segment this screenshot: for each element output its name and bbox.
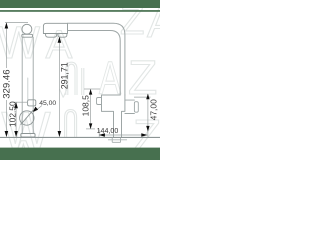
right view: spout arm bottom / inner curve <box>68 31 121 96</box>
right view: left nub <box>97 98 102 105</box>
left view: column left edge <box>21 37 23 133</box>
arrow down 329.46 bottom <box>5 131 9 137</box>
right view: handle end cap <box>134 102 138 113</box>
dim line 108.5 <box>90 89 92 128</box>
svg-text:108,5: 108,5 <box>81 95 91 117</box>
footer green band <box>0 148 160 160</box>
ext line 47.00 top <box>134 96 151 98</box>
left view: knob sphere <box>22 24 32 34</box>
arrow leader 45.00 <box>33 107 38 112</box>
dim line 329.46 lower <box>5 100 7 137</box>
watermark WALZ letters <box>0 0 175 183</box>
deck / counter line <box>0 136 160 138</box>
svg-text:47,00: 47,00 <box>148 99 158 121</box>
left view: knob collar <box>22 34 33 37</box>
dim line 47.00 <box>147 94 149 137</box>
arrow up 47.00 top <box>146 94 149 100</box>
left view: handle sphere <box>20 111 34 125</box>
arrow up 291.71 top <box>58 37 62 43</box>
header green band <box>0 0 160 8</box>
ext line 108.5 bottom <box>86 128 95 130</box>
arrow down 47.00 bottom <box>146 126 149 132</box>
left view: handle pivot collar <box>28 100 36 106</box>
svg-text:291,71: 291,71 <box>60 62 70 89</box>
dim line 291.71 <box>58 37 60 136</box>
left view: column right edge <box>32 37 34 133</box>
right view: side handle cylinder <box>125 100 134 113</box>
dim line 144.00 <box>99 134 147 136</box>
svg-text:102.50: 102.50 <box>7 101 17 127</box>
dim line 102.50 <box>15 103 17 137</box>
right view: spout arm top <box>68 23 125 95</box>
left view: base flange <box>21 134 35 137</box>
arrow down 108.5 bottom <box>89 123 92 129</box>
svg-text:144,00: 144,00 <box>97 127 119 135</box>
svg-text:329.46: 329.46 <box>2 69 13 98</box>
arrow left 144.00 <box>99 133 105 136</box>
under-deck shank <box>108 137 127 142</box>
arrow down 291.71 bottom <box>58 131 62 137</box>
svg-text:45,00: 45,00 <box>39 100 56 107</box>
leader 45.00 <box>34 106 42 112</box>
left view: handle sphere diagonal <box>21 110 33 124</box>
arrow down 102.50 bottom <box>14 131 18 137</box>
ext line top 329.46 <box>5 22 28 24</box>
right view: spout head <box>43 23 67 33</box>
right view: aerator tab 2 <box>58 34 67 38</box>
dim line 329.46 upper <box>5 23 7 68</box>
dimension texts <box>2 62 159 135</box>
arrow right 144.00 <box>141 133 147 136</box>
ext line 108.5 top <box>84 88 100 90</box>
right view: aerator tab 1 <box>46 34 57 38</box>
right view: body <box>102 95 121 137</box>
ext line 144 left <box>98 130 100 137</box>
svg-text:A: A <box>99 54 121 104</box>
right view: body right side <box>122 95 125 137</box>
left view: inner stem line <box>27 78 29 100</box>
ext line 102.50 <box>14 101 28 103</box>
arrow up 108.5 top <box>89 89 92 95</box>
arrow up 102.50 top <box>14 102 18 108</box>
arrow up 329.46 top <box>5 23 9 29</box>
header thin green rule <box>0 10 160 12</box>
